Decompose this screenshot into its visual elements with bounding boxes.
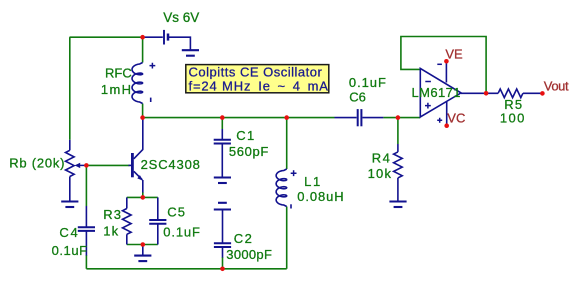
wire C2 bottom green [222, 257, 224, 269]
svg-text:LM6171: LM6171 [412, 85, 461, 100]
inductor RFC [132, 63, 143, 104]
node VE terminal [444, 59, 449, 64]
svg-text:C5: C5 [167, 205, 186, 220]
wire R4 drop [397, 118, 399, 144]
junction Rb wiper node [84, 163, 89, 168]
svg-text:R3: R3 [103, 207, 122, 222]
svg-text:0.1uF: 0.1uF [52, 243, 88, 258]
junction R3/C5 bottom node [141, 242, 146, 247]
junction C1 top on collector rail [220, 115, 225, 120]
svg-text:0.1uF: 0.1uF [349, 75, 387, 90]
capacitor C4 [85, 206, 87, 227]
junction emitter/R3/C5 top node [141, 195, 146, 200]
svg-text:C4: C4 [59, 225, 79, 240]
wire emitter drop [142, 192, 144, 197]
svg-text:L1: L1 [304, 174, 322, 189]
svg-text:Vs 6V: Vs 6V [163, 10, 199, 25]
wire wiper drop to C4 [85, 165, 87, 206]
ground Rb [61, 200, 78, 202]
svg-text:100: 100 [500, 110, 526, 125]
svg-text:3000pF: 3000pF [226, 247, 272, 262]
svg-text:C2: C2 [234, 231, 253, 246]
pin VE [445, 61, 447, 82]
resistor R3 [126, 197, 128, 208]
wire top-left rail [70, 36, 143, 38]
capacitor C2 [222, 210, 224, 244]
junction battery/RFC/supply node [140, 35, 145, 40]
transistor Q1 2SC4308 [131, 153, 134, 177]
svg-text:0.08uH: 0.08uH [297, 189, 344, 204]
svg-text:2SC4308: 2SC4308 [141, 157, 201, 172]
svg-text:1k: 1k [103, 224, 119, 239]
node Vout terminal [540, 91, 545, 96]
battery V1 Vs [143, 36, 163, 38]
ground C2 (inverted) [218, 202, 227, 204]
svg-text:1mH: 1mH [101, 82, 132, 97]
ground C1 [214, 176, 231, 178]
svg-text:0.1uF: 0.1uF [163, 225, 201, 240]
resistor R4 [397, 144, 399, 152]
wire base [86, 164, 129, 166]
capacitor C5 [157, 197, 159, 219]
wire left drop to Rb [69, 37, 71, 140]
svg-text:Ie ~ 4 mA: Ie ~ 4 mA [258, 79, 328, 94]
svg-text:RFC: RFC [105, 66, 132, 81]
resistor R5 [498, 89, 523, 98]
wire C4 bottom [85, 255, 87, 269]
svg-text:C6: C6 [349, 90, 366, 105]
svg-text:Rb (20k): Rb (20k) [9, 155, 65, 170]
svg-text:560pF: 560pF [229, 144, 269, 159]
wire bottom rail [86, 268, 286, 270]
wiper arrow Rb [79, 164, 87, 166]
op-amp U1 LM6171 [420, 68, 461, 117]
svg-text:VC: VC [447, 111, 465, 126]
wire RFC bottom to collector rail [142, 104, 144, 118]
ground R3C5 [142, 245, 144, 256]
wire collector rail [143, 117, 335, 119]
junction L1 top on collector rail [284, 115, 289, 120]
potentiometer Rb [69, 140, 71, 151]
wire feedback loop [401, 37, 486, 94]
svg-text:10k: 10k [368, 166, 393, 181]
svg-text:VE: VE [445, 47, 463, 62]
ground R4 [389, 200, 406, 202]
node VC terminal [444, 123, 449, 128]
wire output [461, 92, 498, 94]
svg-text:Colpitts CE Oscillator: Colpitts CE Oscillator [189, 64, 323, 79]
junction collector node [140, 115, 145, 120]
svg-text:C1: C1 [236, 128, 255, 143]
pin VC [446, 101, 448, 126]
junction output/feedback node [484, 91, 489, 96]
junction C6/R4/op-amp + input node [396, 115, 401, 120]
info box [186, 65, 329, 93]
wire RFC top [142, 37, 144, 62]
svg-text:f=24 MHz: f=24 MHz [189, 79, 252, 94]
junction C2 bottom on feedback rail [220, 267, 225, 272]
capacitor C1 [221, 129, 223, 140]
wire R3C5 top rail [127, 196, 158, 198]
svg-text:R4: R4 [372, 151, 391, 166]
wire L1 top [286, 118, 288, 169]
wire C6 to opamp [383, 117, 420, 119]
wire L1 bottom [286, 207, 288, 269]
wire C1 top lead [221, 118, 223, 129]
svg-text:Vout: Vout [544, 79, 569, 94]
ground battery [182, 49, 199, 51]
inductor L1 [276, 169, 287, 207]
capacitor C6 [335, 117, 357, 119]
wire R3C5 bottom rail [127, 244, 158, 246]
